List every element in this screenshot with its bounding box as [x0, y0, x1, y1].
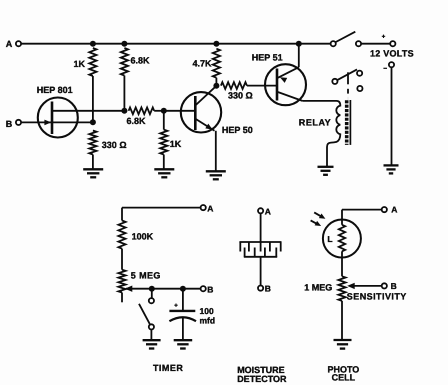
svg-text:DETECTOR: DETECTOR — [237, 374, 287, 384]
svg-text:5 MEG: 5 MEG — [131, 271, 161, 281]
svg-text:CELL: CELL — [332, 373, 356, 383]
svg-text:A: A — [207, 203, 213, 213]
svg-text:1K: 1K — [170, 139, 182, 149]
svg-text:SENSITIVITY: SENSITIVITY — [347, 292, 407, 302]
svg-text:6.8K: 6.8K — [127, 116, 147, 126]
svg-text:L: L — [327, 234, 332, 244]
svg-text:RELAY: RELAY — [299, 118, 331, 128]
svg-text:A: A — [265, 206, 271, 216]
svg-text:12 VOLTS: 12 VOLTS — [370, 48, 414, 58]
svg-text:B: B — [391, 281, 397, 291]
svg-text:HEP 801: HEP 801 — [37, 85, 73, 95]
svg-text:A: A — [391, 205, 397, 215]
svg-text:A: A — [6, 39, 13, 49]
svg-text:330 Ω: 330 Ω — [102, 140, 127, 150]
svg-text:6.8K: 6.8K — [131, 56, 151, 66]
svg-text:TIMER: TIMER — [153, 363, 184, 373]
svg-text:HEP 50: HEP 50 — [222, 125, 253, 135]
svg-text:1K: 1K — [73, 59, 85, 69]
svg-text:4.7K: 4.7K — [192, 59, 212, 69]
svg-text:B: B — [207, 284, 213, 294]
svg-text:330 Ω: 330 Ω — [228, 90, 253, 100]
svg-text:mfd: mfd — [200, 315, 216, 325]
svg-text:HEP 51: HEP 51 — [252, 52, 283, 62]
svg-text:1 MEG: 1 MEG — [304, 282, 332, 292]
svg-text:100K: 100K — [132, 232, 154, 242]
svg-text:B: B — [6, 119, 13, 129]
svg-text:B: B — [265, 284, 271, 294]
